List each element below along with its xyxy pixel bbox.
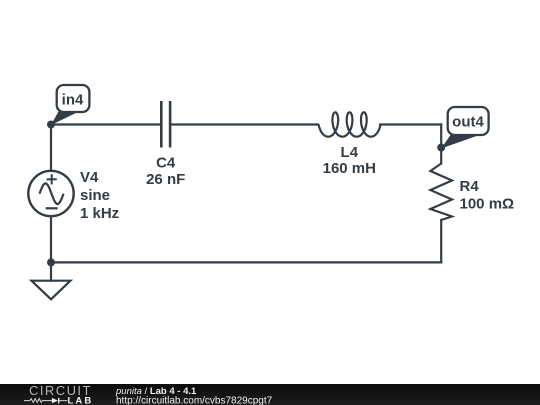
capacitor C4	[161, 101, 170, 148]
V4 plus sign	[47, 174, 57, 184]
svg-text:http://circuitlab.com/cvbs7829: http://circuitlab.com/cvbs7829cpgt7	[116, 396, 273, 405]
svg-text:out4: out4	[452, 114, 484, 131]
logo resistor zigzag	[24, 399, 52, 403]
voltage source V4	[28, 171, 73, 216]
wire left vertical lower	[50, 216, 52, 263]
node out4 flag bubble	[448, 107, 489, 135]
wire top left: in4 node to capacitor	[51, 123, 161, 125]
svg-text:C4: C4	[156, 155, 176, 172]
inductor L4	[319, 112, 381, 136]
svg-text:sine: sine	[80, 187, 110, 204]
node out4 flag tail	[441, 134, 476, 149]
svg-text:1 kHz: 1 kHz	[80, 205, 119, 222]
ground	[32, 281, 71, 300]
wire top mid: capacitor to inductor	[170, 123, 318, 125]
V4 sine waveform	[40, 183, 64, 204]
svg-text:L4: L4	[341, 144, 359, 161]
V4 minus sign	[46, 207, 58, 209]
node out4 junction dot	[437, 144, 445, 152]
svg-text:LAB: LAB	[68, 396, 94, 405]
node in4 junction dot	[47, 121, 55, 129]
wire ground stem	[50, 262, 52, 280]
node in4 flag tail	[51, 112, 77, 126]
svg-text:100 mΩ: 100 mΩ	[460, 196, 515, 213]
wire bottom	[51, 261, 441, 263]
node junction dot bottom	[47, 258, 55, 266]
wire right vertical to resistor	[440, 125, 442, 164]
node in4 flag bubble	[57, 85, 90, 112]
wire left vertical upper	[50, 125, 52, 172]
svg-text:160 mH: 160 mH	[323, 160, 376, 177]
svg-text:V4: V4	[80, 169, 99, 186]
wire resistor bottom to corner	[440, 220, 442, 262]
resistor R4	[430, 164, 452, 221]
logo diode	[52, 398, 58, 403]
svg-text:in4: in4	[62, 92, 84, 109]
svg-text:R4: R4	[460, 178, 480, 195]
svg-text:26 nF: 26 nF	[146, 171, 185, 188]
wire top right: inductor to corner	[380, 123, 441, 125]
